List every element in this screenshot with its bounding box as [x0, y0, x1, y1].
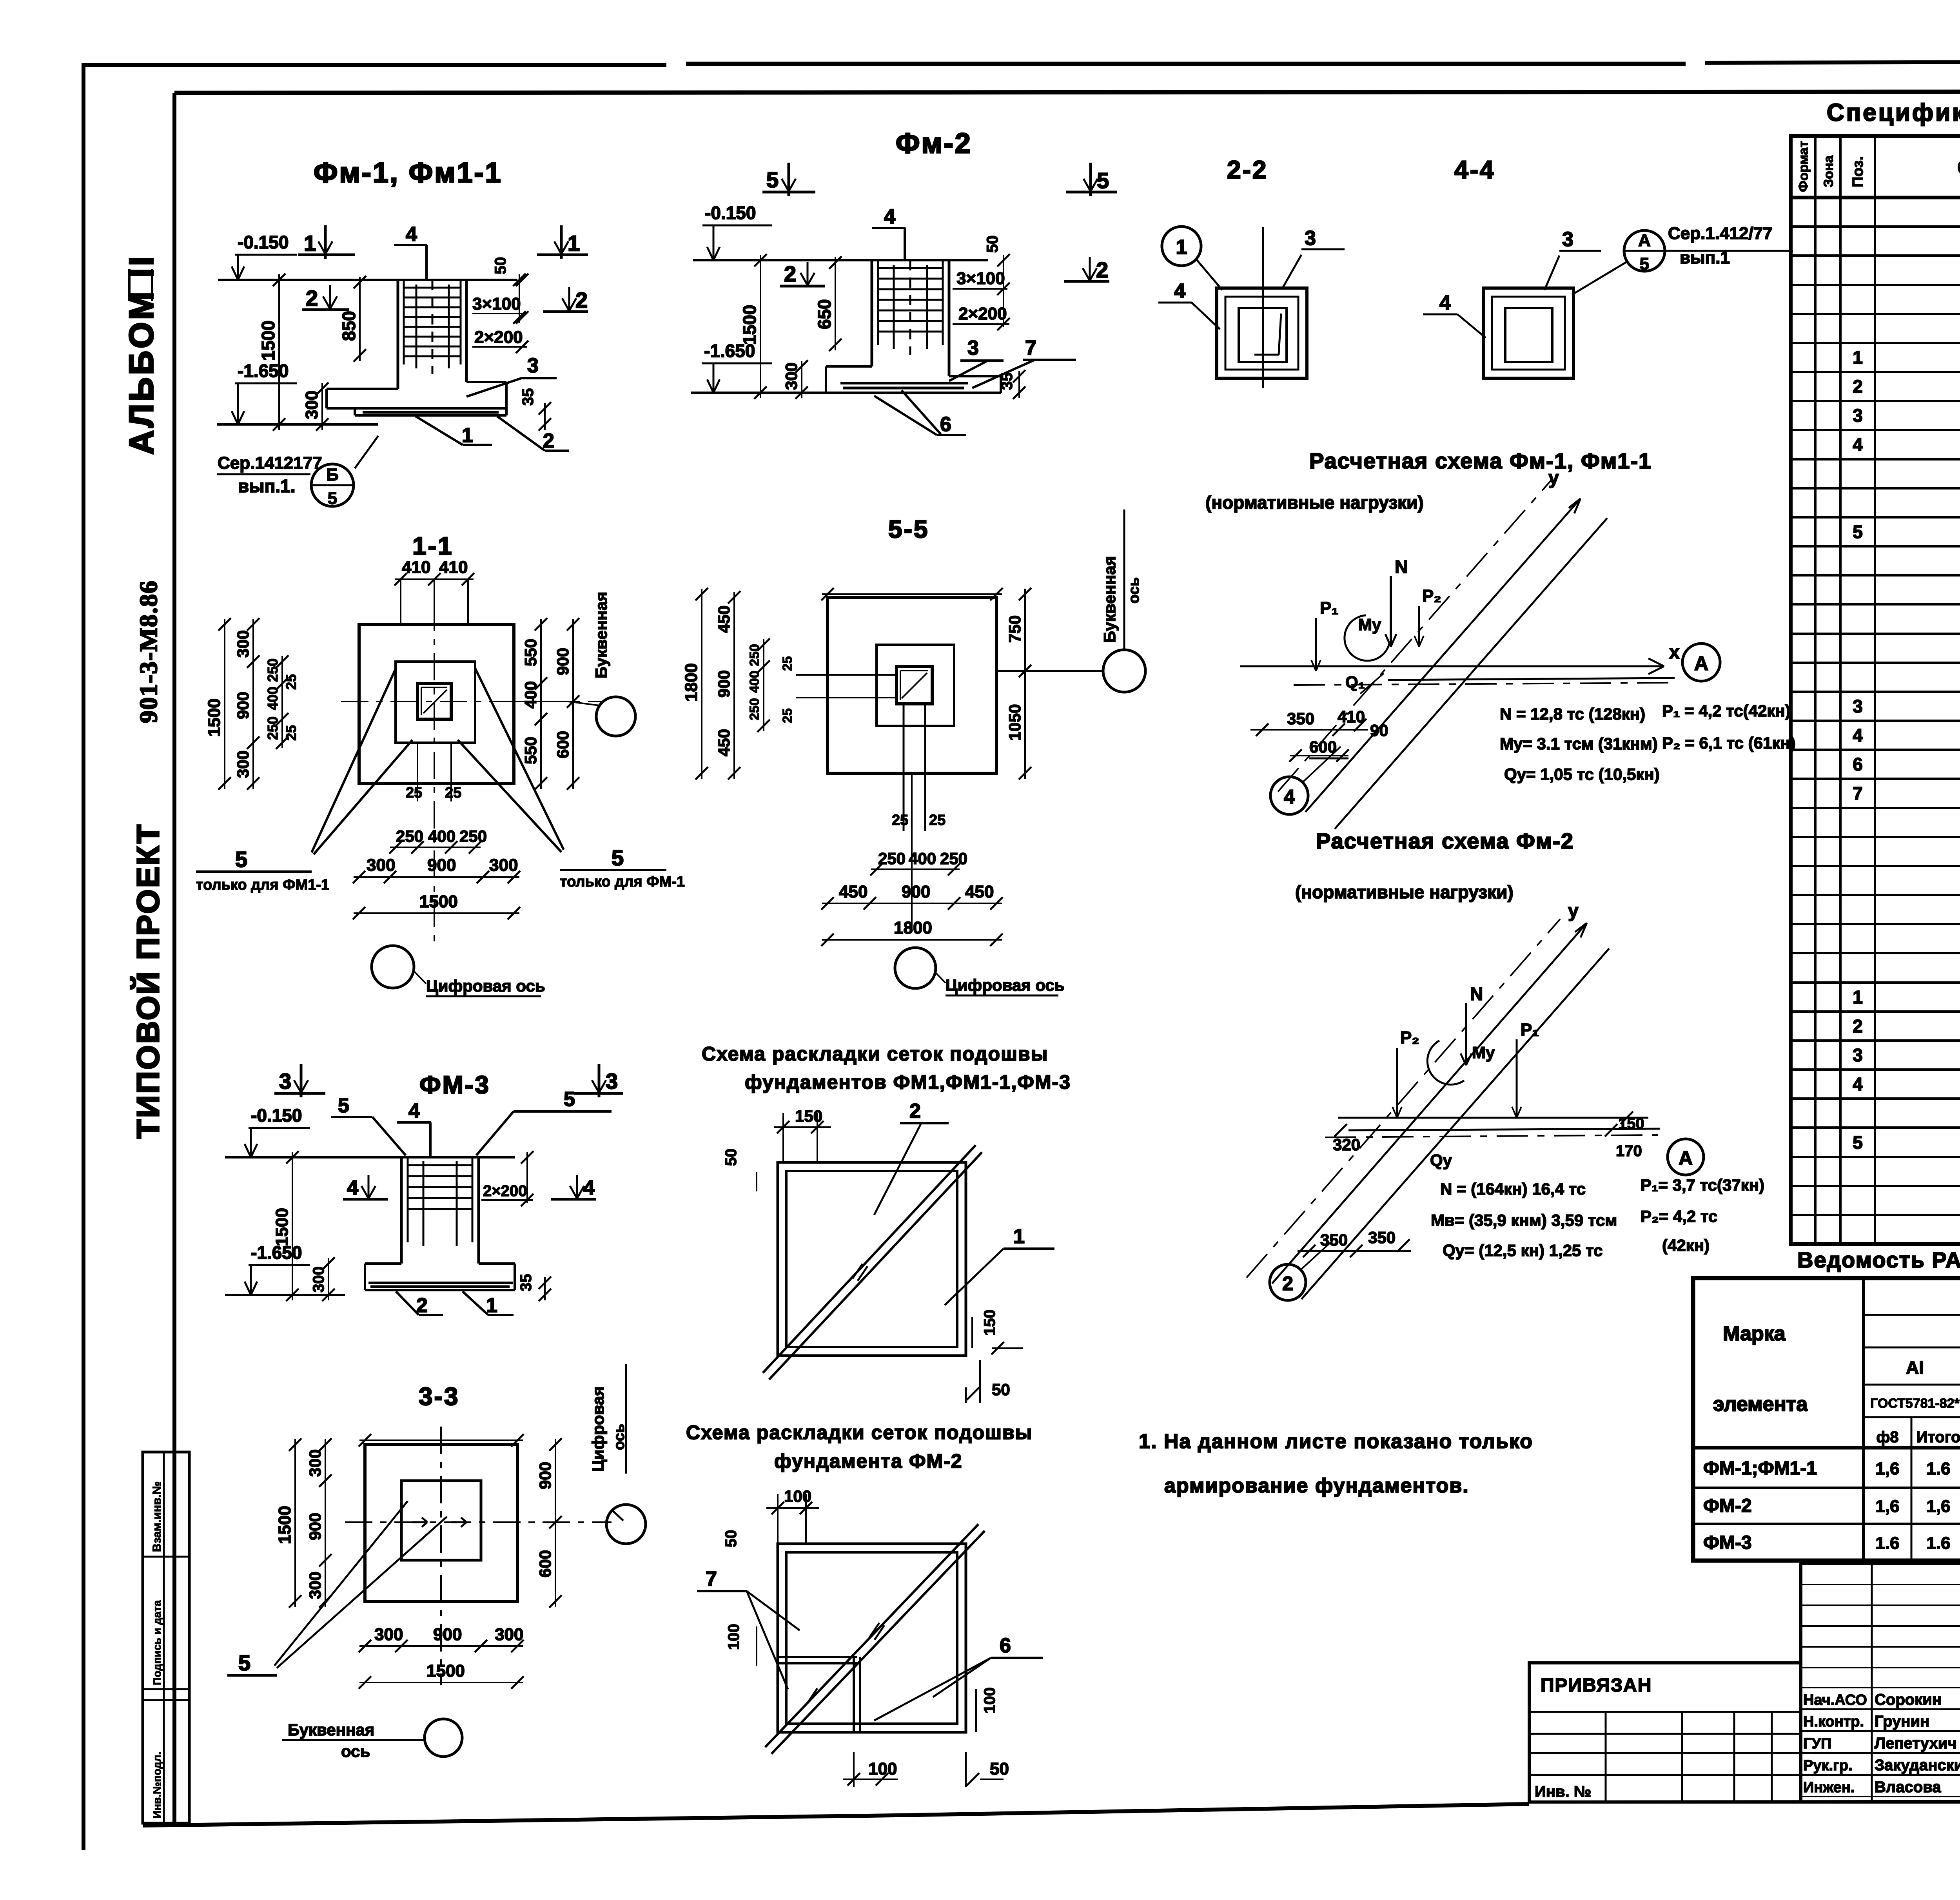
svg-text:1.6: 1.6 — [1926, 1459, 1950, 1478]
scheme FM-1 x axis — [1240, 665, 1664, 667]
svg-text:350: 350 — [1320, 1231, 1348, 1249]
svg-text:100: 100 — [725, 1624, 742, 1650]
svg-text:Фм-1, Фм1-1: Фм-1, Фм1-1 — [314, 157, 503, 189]
scheme FM-1 y axis diagonal — [1305, 499, 1581, 812]
scheme FM-2 horizontal beam — [1338, 1117, 1648, 1119]
FM-2 lower ground level line — [691, 392, 829, 394]
svg-text:2: 2 — [1282, 1273, 1293, 1294]
svg-text:ГОСТ5781-82*: ГОСТ5781-82* — [1870, 1396, 1960, 1411]
FM-1 section mark 2 right — [543, 310, 588, 313]
svg-text:300: 300 — [374, 1625, 403, 1644]
svg-text:901-3-М8.86: 901-3-М8.86 — [134, 580, 162, 723]
svg-text:вып.1: вып.1 — [1680, 248, 1730, 267]
FM-2 footing — [826, 365, 872, 368]
svg-text:1500: 1500 — [205, 698, 224, 737]
svg-text:Лепетухич: Лепетухич — [1875, 1735, 1957, 1752]
svg-text:Б: Б — [326, 465, 339, 484]
svg-text:1: 1 — [1853, 347, 1863, 368]
svg-text:-1.650: -1.650 — [251, 1242, 302, 1263]
svg-text:650: 650 — [814, 299, 835, 329]
svg-text:Н.контр.: Н.контр. — [1803, 1713, 1864, 1730]
svg-text:300: 300 — [367, 856, 395, 875]
svg-text:50: 50 — [492, 257, 509, 275]
5-5 tsifrovaya axis — [895, 948, 936, 988]
svg-text:2×200: 2×200 — [483, 1182, 527, 1200]
svg-text:150: 150 — [795, 1107, 822, 1125]
title block signature grid — [1801, 1564, 1960, 1802]
svg-text:армирование фундаментов.: армирование фундаментов. — [1164, 1474, 1469, 1497]
svg-text:35: 35 — [519, 388, 537, 406]
5-5 left dims — [733, 592, 735, 779]
mesh1 diagonal break marks — [853, 1264, 862, 1278]
5-5 bukvennaya axis — [1103, 650, 1145, 692]
svg-text:Поз.: Поз. — [1850, 156, 1866, 187]
svg-text:1. На данном листе показано: 1. На данном листе показано только — [1139, 1430, 1533, 1453]
svg-text:только для ФМ-1: только для ФМ-1 — [560, 874, 685, 890]
svg-text:1500: 1500 — [258, 321, 278, 361]
svg-text:900: 900 — [536, 1462, 554, 1489]
svg-text:250: 250 — [940, 849, 967, 868]
svg-text:1800: 1800 — [894, 918, 932, 937]
svg-text:1.6: 1.6 — [1875, 1534, 1899, 1553]
svg-text:2: 2 — [575, 288, 588, 312]
page outer border left — [82, 63, 85, 1850]
FM-3 column hatch — [408, 1164, 472, 1166]
FM-3 leader 2 — [396, 1291, 419, 1315]
5-5 footing rect — [877, 645, 954, 726]
svg-text:300: 300 — [489, 856, 518, 875]
FM-1 dim 1500 — [278, 274, 280, 430]
svg-text:350: 350 — [1368, 1228, 1396, 1247]
svg-text:3: 3 — [1853, 696, 1863, 716]
svg-text:P₁ = 4,2 тс(42кн): P₁ = 4,2 тс(42кн) — [1662, 702, 1791, 720]
scheme FM-1 beam diagonals — [1335, 518, 1607, 829]
svg-text:P₂ = 6,1 тс (61кн): P₂ = 6,1 тс (61кн) — [1662, 734, 1796, 752]
svg-text:100: 100 — [868, 1759, 897, 1779]
svg-text:5: 5 — [564, 1088, 575, 1111]
svg-text:(42кн): (42кн) — [1662, 1236, 1710, 1255]
svg-text:N = (164кн) 16,4 тс: N = (164кн) 16,4 тс — [1440, 1180, 1586, 1198]
5-5 center line — [911, 773, 913, 929]
svg-text:Инв. №: Инв. № — [1535, 1783, 1591, 1800]
svg-text:Власова: Власова — [1875, 1779, 1941, 1796]
svg-text:элемента: элемента — [1713, 1393, 1808, 1416]
svg-text:3-3: 3-3 — [419, 1382, 460, 1410]
svg-text:5: 5 — [766, 167, 779, 192]
5-5 column legs — [903, 704, 905, 831]
svg-text:А: А — [1679, 1147, 1693, 1169]
4-4 ref circle A/5 — [1624, 230, 1665, 271]
svg-text:400: 400 — [747, 671, 762, 693]
svg-text:5: 5 — [238, 1650, 250, 1675]
svg-text:ТИПОВОЙ ПРОЕКТ: ТИПОВОЙ ПРОЕКТ — [130, 823, 165, 1139]
svg-text:1: 1 — [486, 1294, 497, 1317]
svg-text:3×100: 3×100 — [472, 294, 521, 314]
vedomost body rows — [1693, 1487, 1960, 1489]
FM-1 leader 1 — [416, 416, 463, 445]
spec table header row — [1791, 196, 1960, 199]
svg-text:320: 320 — [1333, 1135, 1360, 1154]
mesh1 outer square — [778, 1162, 966, 1356]
svg-text:170: 170 — [1616, 1142, 1642, 1160]
svg-text:ось: ось — [341, 1742, 370, 1760]
FM-3 section mark 3 left — [274, 1092, 325, 1095]
svg-text:Сер.1.412/77: Сер.1.412/77 — [1668, 224, 1773, 243]
svg-text:350: 350 — [1287, 709, 1314, 728]
svg-text:P₂: P₂ — [1422, 586, 1441, 606]
svg-text:(нормативные нагрузки): (нормативные нагрузки) — [1295, 882, 1514, 902]
svg-text:АI: АI — [1906, 1357, 1924, 1378]
mesh2 inner square — [786, 1552, 957, 1724]
FM-2 column hatch — [878, 267, 943, 269]
svg-text:ГУП: ГУП — [1803, 1735, 1832, 1752]
svg-text:410: 410 — [1338, 707, 1365, 726]
scheme FM-1 node circle A — [1682, 644, 1720, 681]
1-1 center lines — [341, 701, 604, 702]
FM-1 footing — [327, 388, 398, 390]
svg-text:410: 410 — [439, 558, 468, 577]
svg-text:Мy: Мy — [1358, 615, 1381, 634]
page outer border top — [83, 63, 666, 67]
svg-text:Мy= 3.1 тсм (31кнм): Мy= 3.1 тсм (31кнм) — [1500, 734, 1658, 753]
svg-text:4-4: 4-4 — [1454, 156, 1495, 184]
svg-text:Фм-2: Фм-2 — [896, 128, 972, 159]
svg-text:-0.150: -0.150 — [251, 1105, 302, 1126]
svg-text:600: 600 — [554, 731, 572, 758]
svg-text:5: 5 — [235, 847, 247, 872]
svg-text:N: N — [1395, 557, 1408, 577]
svg-text:y: y — [1548, 468, 1559, 488]
svg-text:1.6: 1.6 — [1926, 1534, 1950, 1553]
3-3 inner square — [401, 1481, 481, 1560]
scheme FM-2 node circle A — [1668, 1139, 1704, 1175]
svg-text:900: 900 — [715, 670, 733, 698]
FM-1 upper ground level line — [218, 279, 517, 281]
svg-text:3: 3 — [527, 354, 539, 377]
vedomost header bands — [1864, 1314, 1960, 1316]
spec table frame — [1791, 136, 1960, 1244]
svg-text:4: 4 — [1284, 786, 1295, 808]
svg-text:P₁: P₁ — [1320, 598, 1339, 618]
svg-text:Итого: Итого — [1916, 1429, 1960, 1446]
svg-text:-0.150: -0.150 — [238, 232, 289, 252]
svg-text:4: 4 — [583, 1177, 595, 1199]
inner frame top — [174, 91, 1960, 93]
svg-text:5: 5 — [1853, 1132, 1863, 1153]
svg-text:300: 300 — [782, 363, 800, 390]
3-3 tsifrovaya axis — [606, 1505, 646, 1544]
FM-3 dim 1500 — [292, 1152, 293, 1300]
svg-text:100: 100 — [784, 1487, 811, 1505]
mesh2 diagonal break marks — [869, 1623, 879, 1637]
svg-text:1050: 1050 — [1005, 704, 1024, 741]
svg-text:900: 900 — [234, 692, 252, 719]
svg-text:550: 550 — [521, 639, 540, 666]
svg-text:90: 90 — [1370, 721, 1388, 740]
svg-text:250: 250 — [265, 658, 281, 682]
svg-text:1: 1 — [1176, 236, 1187, 259]
scheme FM-1 force N — [1390, 576, 1392, 647]
svg-text:4: 4 — [408, 1100, 420, 1122]
vedomost sub column lines — [1911, 1417, 1913, 1561]
svg-text:25: 25 — [445, 785, 461, 801]
FM-1 dim 3x100 — [519, 274, 520, 323]
mesh2 inner partition — [778, 1656, 857, 1658]
svg-text:Мв= (35,9 кнм) 3,59 тсм: Мв= (35,9 кнм) 3,59 тсм — [1431, 1211, 1617, 1229]
svg-text:Мy: Мy — [1472, 1043, 1495, 1062]
FM-2 dim 650 — [835, 257, 836, 350]
svg-text:ось: ось — [611, 1424, 628, 1450]
FM-2 dim 1500 — [760, 255, 761, 398]
svg-text:400: 400 — [265, 687, 281, 710]
vedomost marka column — [1862, 1278, 1865, 1561]
svg-text:300: 300 — [310, 1266, 327, 1293]
svg-text:А: А — [1638, 231, 1651, 250]
1-1 right dims — [540, 619, 542, 789]
svg-text:2: 2 — [1853, 1016, 1863, 1036]
1-1 tsifrovaya axis circle — [372, 946, 414, 988]
FM-1 leader 2 — [497, 416, 545, 451]
mesh1 inner square — [786, 1171, 957, 1347]
mesh2 outer square — [778, 1544, 966, 1732]
svg-text:3: 3 — [279, 1069, 291, 1093]
svg-text:50: 50 — [992, 1380, 1010, 1399]
scheme FM-2 y axis diagonal — [1272, 923, 1587, 1284]
3-3 bukvennaya axis — [425, 1719, 462, 1757]
svg-text:Буквенная: Буквенная — [592, 592, 610, 678]
svg-text:1: 1 — [462, 424, 473, 447]
svg-text:400: 400 — [909, 849, 936, 868]
svg-text:450: 450 — [839, 882, 867, 901]
svg-text:Ведомость РАСХОДА СТАЛИ НА: Ведомость РАСХОДА СТАЛИ НА ЭЛЕМЕНТ, кг — [1797, 1247, 1960, 1272]
svg-text:x: x — [1669, 642, 1680, 663]
mesh1 diagonal — [763, 1145, 976, 1373]
svg-text:2: 2 — [416, 1294, 428, 1317]
1-1 left dims — [224, 619, 225, 789]
scheme FM-2 force P1 — [1516, 1039, 1518, 1118]
svg-text:250: 250 — [747, 698, 762, 720]
svg-text:600: 600 — [536, 1550, 554, 1577]
3-3 center lines — [345, 1521, 612, 1523]
FM-1 section mark 1 right — [537, 254, 588, 256]
spec table column lines — [1814, 136, 1817, 1244]
svg-text:2: 2 — [784, 261, 796, 286]
svg-text:1-1: 1-1 — [412, 532, 454, 560]
svg-text:2: 2 — [909, 1100, 921, 1122]
scheme FM-1 node circle 4 — [1270, 777, 1308, 814]
FM-2 section mark 5 left — [762, 191, 815, 194]
svg-text:1800: 1800 — [682, 663, 701, 702]
5-5 outer rect — [828, 597, 996, 773]
svg-text:6: 6 — [940, 413, 951, 436]
svg-text:Буквенная: Буквенная — [1100, 556, 1119, 643]
svg-text:Q₁: Q₁ — [1345, 673, 1365, 691]
svg-text:2: 2 — [1096, 257, 1108, 282]
FM-2 base plate — [826, 392, 1001, 394]
scheme FM-1 force P1 — [1315, 618, 1317, 671]
svg-text:Qy= (12,5 кн) 1,25 тс: Qy= (12,5 кн) 1,25 тс — [1443, 1241, 1602, 1260]
svg-text:ФМ-3: ФМ-3 — [1703, 1532, 1752, 1553]
svg-text:1,6: 1,6 — [1875, 1459, 1899, 1478]
1-1 far right dim 1800 — [701, 589, 702, 779]
svg-text:Инжен.: Инжен. — [1803, 1779, 1855, 1796]
FM-2 upper ground level line — [693, 259, 988, 261]
3-3 rebar arrows — [412, 1521, 427, 1523]
1-1 leader 5 right — [475, 668, 564, 850]
FM-3 section mark 3 right — [574, 1092, 623, 1095]
FM-1 section mark 1 top — [298, 254, 355, 256]
svg-text:250: 250 — [747, 644, 762, 666]
svg-text:250: 250 — [459, 827, 487, 845]
FM-3 leader 1 — [463, 1291, 488, 1315]
svg-text:2-2: 2-2 — [1227, 156, 1268, 184]
FM-3 level mark -0.150 — [250, 1128, 252, 1155]
FM-1 dim 300 — [321, 383, 323, 430]
svg-text:3: 3 — [606, 1069, 618, 1093]
FM-3 column — [400, 1157, 403, 1264]
2-2 outer square — [1217, 288, 1307, 378]
svg-text:1500: 1500 — [272, 1208, 292, 1246]
FM-2 section mark 2 right — [1064, 280, 1109, 283]
svg-text:ПРИВЯЗАН: ПРИВЯЗАН — [1541, 1675, 1652, 1696]
svg-text:6: 6 — [1853, 754, 1863, 774]
svg-text:Формат: Формат — [1796, 141, 1811, 192]
3-3 outer square — [365, 1445, 517, 1601]
svg-text:1: 1 — [1853, 987, 1863, 1007]
svg-text:Цифровая ось: Цифровая ось — [946, 976, 1065, 994]
4-4 inner frame — [1492, 297, 1565, 370]
2-2 rebar hook — [1254, 354, 1279, 356]
scheme FM-2 force N — [1465, 1003, 1467, 1065]
svg-text:P₂= 4,2 тс: P₂= 4,2 тс — [1641, 1207, 1717, 1226]
svg-text:5: 5 — [338, 1094, 349, 1117]
svg-text:3: 3 — [1562, 228, 1573, 251]
vedomost frame — [1693, 1278, 1960, 1561]
3-3 leader 5 — [274, 1501, 408, 1666]
svg-text:150: 150 — [981, 1309, 998, 1336]
svg-text:1: 1 — [1013, 1225, 1025, 1248]
svg-text:25: 25 — [780, 708, 795, 723]
svg-text:6: 6 — [1000, 1634, 1011, 1657]
svg-text:Рук.гр.: Рук.гр. — [1803, 1757, 1853, 1774]
svg-text:25: 25 — [283, 674, 299, 690]
svg-text:300: 300 — [306, 1449, 324, 1477]
svg-text:900: 900 — [427, 856, 456, 875]
svg-text:Марка: Марка — [1723, 1322, 1786, 1345]
5-5 top dim line — [822, 593, 1002, 595]
svg-text:Расчетная схема Фм-2: Расчетная схема Фм-2 — [1316, 829, 1574, 853]
FM-1 column hatch (mesh) — [404, 287, 461, 289]
svg-text:4: 4 — [1439, 292, 1451, 314]
2-2 ref circle 1 — [1162, 227, 1201, 266]
svg-text:550: 550 — [521, 737, 540, 764]
svg-text:900: 900 — [902, 882, 930, 901]
FM-3 level mark -1.650 — [250, 1265, 252, 1293]
svg-text:1,6: 1,6 — [1875, 1497, 1899, 1516]
svg-text:1: 1 — [304, 231, 316, 256]
svg-text:Закудански й: Закудански й — [1875, 1757, 1960, 1774]
svg-text:4: 4 — [1853, 1074, 1863, 1094]
FM-3 base plate — [368, 1282, 513, 1284]
FM-2 section mark 5 right — [1066, 191, 1117, 194]
svg-text:Схема раскладки сеток подошвы: Схема раскладки сеток подошвы — [686, 1421, 1033, 1443]
scheme FM-2 force P2 — [1396, 1048, 1398, 1118]
svg-text:Взам.инв.№: Взам.инв.№ — [151, 1481, 163, 1552]
1-1 column inner detail — [421, 687, 447, 688]
FM-2 dim 300 — [801, 361, 802, 398]
svg-text:Qy= 1,05 тс (10,5кн): Qy= 1,05 тс (10,5кн) — [1504, 765, 1660, 783]
svg-text:4: 4 — [347, 1177, 358, 1199]
svg-text:Сорокин: Сорокин — [1875, 1691, 1942, 1708]
svg-text:900: 900 — [306, 1513, 324, 1540]
svg-text:450: 450 — [715, 606, 733, 633]
1-1 outer square — [359, 624, 514, 783]
svg-text:Нач.АСО: Нач.АСО — [1803, 1692, 1867, 1708]
svg-text:Сер.1412177: Сер.1412177 — [218, 453, 322, 473]
5-5 right dims — [1024, 589, 1026, 779]
spec table row lines — [1791, 225, 1960, 228]
scheme FM-2 dims 350 350 — [1298, 1250, 1411, 1252]
svg-text:Цифровая: Цифровая — [589, 1386, 607, 1472]
mesh2 diagonal — [765, 1524, 978, 1747]
FM-1 lower ground level line — [217, 423, 378, 426]
FM-3 lower level line — [225, 1294, 345, 1296]
svg-text:ФМ-2: ФМ-2 — [1703, 1496, 1752, 1516]
svg-text:5: 5 — [328, 489, 337, 508]
svg-text:900: 900 — [433, 1625, 462, 1644]
scheme FM-1 dim 600 — [1290, 755, 1348, 756]
svg-text:2: 2 — [543, 430, 554, 452]
svg-text:250: 250 — [265, 716, 281, 740]
svg-text:Qy: Qy — [1430, 1151, 1452, 1169]
svg-text:Грунин: Грунин — [1875, 1713, 1929, 1730]
FM-2 column — [871, 260, 873, 366]
svg-text:100: 100 — [981, 1687, 998, 1713]
svg-text:7: 7 — [1853, 783, 1863, 803]
2-2 center line — [1262, 227, 1264, 388]
5-5 column — [897, 667, 932, 704]
svg-text:35: 35 — [517, 1274, 535, 1292]
svg-text:5: 5 — [1640, 254, 1649, 274]
FM-3 section mark 4 right — [551, 1198, 596, 1201]
FM-2 section mark 2 left — [780, 285, 825, 288]
FM-3 upper level line — [225, 1156, 515, 1158]
FM-1 dim 850 — [359, 277, 361, 361]
svg-text:Буквенная: Буквенная — [288, 1721, 374, 1739]
svg-text:50: 50 — [722, 1149, 740, 1166]
svg-text:150: 150 — [1618, 1115, 1644, 1132]
FM-3 section mark 4 left — [343, 1198, 388, 1201]
svg-text:450: 450 — [965, 882, 994, 901]
FM-1 level mark -0.150 — [237, 255, 239, 277]
svg-text:400: 400 — [521, 681, 540, 709]
svg-text:25: 25 — [929, 812, 946, 829]
3-3 left dims — [294, 1439, 296, 1607]
svg-text:Подпись и дата: Подпись и дата — [151, 1600, 163, 1685]
svg-text:3: 3 — [1305, 227, 1316, 250]
svg-text:(нормативные нагрузки): (нормативные нагрузки) — [1205, 492, 1424, 513]
FM-3 dim 300 — [328, 1258, 329, 1300]
svg-text:300: 300 — [234, 751, 252, 778]
svg-text:5-5: 5-5 — [888, 515, 929, 543]
svg-text:300: 300 — [306, 1572, 324, 1599]
svg-text:Схема раскладки сеток подошвы: Схема раскладки сеток подошвы — [702, 1043, 1048, 1065]
svg-text:4: 4 — [884, 205, 895, 228]
scheme FM-2 dims 150 170 — [1621, 1111, 1633, 1124]
FM-3 footing — [365, 1262, 401, 1265]
FM-1 ref circle B/5 — [311, 464, 354, 506]
svg-text:ф8: ф8 — [1876, 1429, 1898, 1446]
